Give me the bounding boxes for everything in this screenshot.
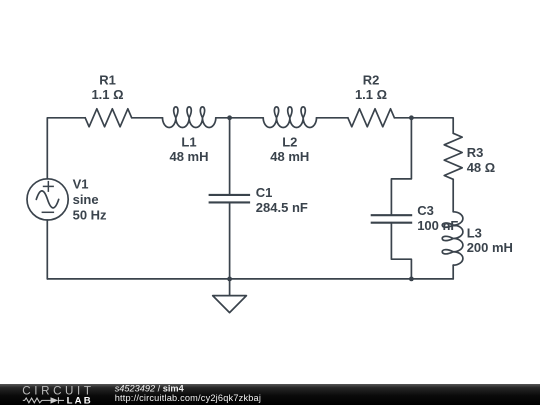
svg-text:s4523492 / sim4: s4523492 / sim4 <box>115 383 185 393</box>
svg-text:L3: L3 <box>467 225 482 240</box>
svg-text:V1: V1 <box>73 176 89 191</box>
svg-text:50 Hz: 50 Hz <box>73 208 107 223</box>
svg-text:48 Ω: 48 Ω <box>467 160 496 175</box>
svg-text:R1: R1 <box>99 72 116 87</box>
svg-text:200 mH: 200 mH <box>467 240 513 255</box>
svg-text:R3: R3 <box>467 145 484 160</box>
svg-text:C1: C1 <box>256 185 273 200</box>
svg-text:C3: C3 <box>417 203 434 218</box>
svg-text:48 mH: 48 mH <box>270 149 309 164</box>
svg-text:1.1 Ω: 1.1 Ω <box>91 87 123 102</box>
svg-text:R2: R2 <box>363 72 380 87</box>
svg-text:48 mH: 48 mH <box>169 149 208 164</box>
svg-text:1.1 Ω: 1.1 Ω <box>355 87 387 102</box>
svg-text:sine: sine <box>73 192 99 207</box>
svg-text:284.5 nF: 284.5 nF <box>256 200 308 215</box>
svg-text:100 nF: 100 nF <box>417 218 458 233</box>
svg-text:http://circuitlab.com/cy2j6qk7: http://circuitlab.com/cy2j6qk7zkbaj <box>115 393 261 403</box>
svg-text:LAB: LAB <box>67 395 93 405</box>
svg-text:L2: L2 <box>282 135 297 150</box>
svg-text:L1: L1 <box>181 135 196 150</box>
